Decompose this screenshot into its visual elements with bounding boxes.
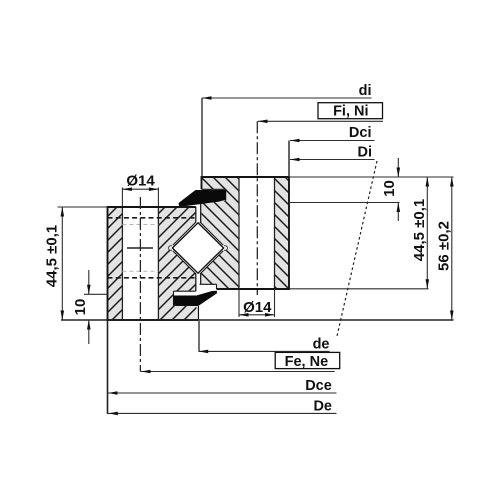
dimension 10 right	[381, 158, 400, 221]
hidden edge upper (dashed) in ring L	[108, 217, 196, 219]
ring L body (left bearing ring, hatched)	[108, 207, 197, 320]
svg-text:10: 10	[72, 299, 89, 316]
ring R outline	[200, 177, 290, 289]
svg-text:Ø14: Ø14	[243, 299, 272, 316]
svg-text:56 ±0,2: 56 ±0,2	[436, 221, 453, 271]
section reference line (dotted diagonal)	[337, 161, 377, 336]
centerline ring L hole (dash-dot)	[127, 197, 153, 372]
raceway groove (white, expanded diamond)	[170, 220, 226, 276]
svg-text:Fi, Ni: Fi, Ni	[333, 104, 368, 120]
gap channel between rings (white)	[196, 201, 201, 292]
ring L bolt hole Ø14 (white band)	[122, 206, 158, 321]
faint hidden line upper (hole L)	[122, 224, 158, 226]
seal bottom (black wedge)	[174, 291, 217, 306]
roller relief notch left	[169, 246, 174, 251]
dimension Dce	[108, 321, 337, 414]
svg-text:Ø14: Ø14	[126, 173, 155, 190]
hidden edge lower (dashed) in ring L	[108, 277, 196, 279]
extension line ring R top face	[289, 176, 454, 178]
svg-text:Fe, Ne: Fe, Ne	[285, 354, 329, 370]
dimension Di	[290, 145, 375, 162]
dimension Ø14 bottom	[239, 289, 275, 317]
svg-text:Di: Di	[358, 145, 373, 161]
extension line ring R bottom face	[290, 288, 429, 290]
dimension Fe, Ne (boxed)	[141, 352, 340, 373]
roller relief notch right	[223, 246, 228, 251]
ring R body (right bearing ring, hatched)	[202, 177, 290, 289]
seal top (black wedge)	[179, 190, 226, 206]
svg-text:Dci: Dci	[349, 125, 372, 141]
faint hidden line lower (hole L)	[122, 270, 158, 272]
svg-text:De: De	[313, 399, 332, 415]
ring R bolt hole Ø14 (white band)	[239, 176, 275, 290]
dimension 56 right	[436, 177, 454, 320]
seal notch top (in ring R)	[202, 189, 226, 200]
dimension de	[199, 321, 330, 353]
svg-text:44,5 ±0,1: 44,5 ±0,1	[44, 225, 61, 287]
extension line recess depth left	[84, 293, 108, 295]
centerline ring R hole (dash-dot), also Fi Ni extension	[256, 121, 258, 295]
dimension 44,5 right	[411, 177, 429, 289]
ring L outline	[108, 207, 199, 320]
dimension 44,5 left	[44, 207, 65, 320]
extension line recess depth right	[289, 202, 400, 204]
dimension Fi, Ni (boxed)	[258, 103, 383, 123]
seal notch bottom (in ring L)	[174, 291, 199, 305]
svg-text:di: di	[359, 83, 372, 99]
svg-text:de: de	[313, 336, 330, 352]
dimension Dci	[289, 125, 375, 177]
dimension Ø14 top	[122, 173, 158, 207]
svg-text:Dce: Dce	[305, 378, 332, 394]
svg-text:10: 10	[381, 180, 398, 197]
svg-text:44,5 ±0,1: 44,5 ±0,1	[411, 199, 428, 261]
roller (diamond cross-section)	[172, 223, 223, 273]
dimension De	[108, 399, 336, 416]
extension line ring L bottom face / baseline	[61, 319, 454, 321]
extension line ring L top face	[58, 206, 108, 208]
seal clearance notch bottom (in ring R)	[200, 284, 217, 289]
dimension di	[202, 83, 372, 177]
dimension 10 left	[72, 270, 90, 344]
